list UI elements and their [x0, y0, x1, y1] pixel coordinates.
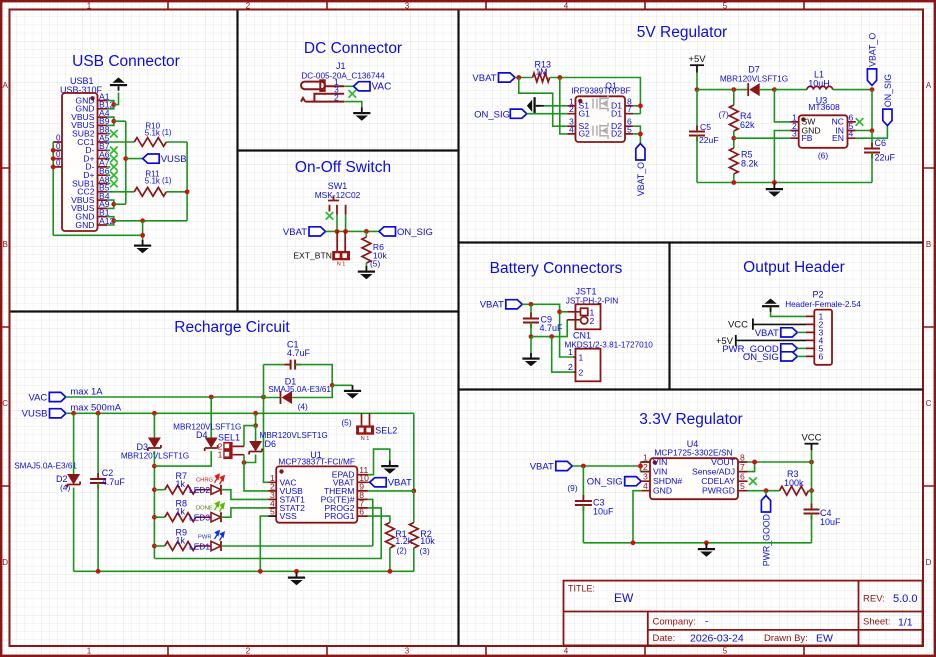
- wire R13 to Q1 drain tie: [550, 78, 641, 114]
- svg-text:3: 3: [405, 1, 410, 10]
- wire to CN1 pin2: [552, 337, 574, 373]
- svg-text:2: 2: [590, 316, 595, 326]
- wire to C4: [811, 491, 813, 508]
- junction VUSB tap: [123, 156, 128, 161]
- U4 pin1 marker dot: [653, 460, 657, 464]
- wire C6 to bottom rail: [871, 153, 873, 183]
- svg-text:4.7uF: 4.7uF: [540, 323, 564, 333]
- svg-text:(2): (2): [397, 546, 407, 556]
- connector P2 body: [814, 310, 832, 365]
- switch SW1 symbol: [328, 196, 346, 215]
- JST1 pin1 square symbol: [581, 308, 588, 315]
- svg-text:D6: D6: [265, 439, 277, 449]
- wire Q1 pin5: [633, 133, 640, 135]
- wire VOUT to VCC node: [748, 461, 812, 463]
- wire to VUSB flag: [126, 158, 143, 160]
- svg-text:1: 1: [568, 347, 573, 357]
- net flag VBAT (3.3V reg): [530, 461, 573, 472]
- ground 5V regulator: [766, 184, 783, 197]
- svg-text:4: 4: [643, 481, 648, 491]
- svg-text:1: 1: [643, 453, 648, 463]
- net flag VAC (DC in): [354, 82, 392, 93]
- section divider horizontal y=389.5 Battery/3.3V: [459, 388, 923, 390]
- wire gnd rail to JST1 pin2: [531, 320, 567, 337]
- wire C1 to gnd branch: [295, 365, 332, 386]
- wire R9 to LED1: [196, 545, 211, 547]
- net flag VBAT (switch): [283, 227, 326, 238]
- junction gnd bottom: [294, 569, 299, 574]
- junction R8 left: [152, 515, 157, 520]
- svg-text:6: 6: [359, 507, 364, 517]
- wire R13 to G2: [560, 78, 568, 134]
- connector SEL2 body: [356, 425, 374, 434]
- svg-text:(9): (9): [567, 483, 577, 493]
- frame ticks right: [923, 168, 935, 486]
- wire to D2: [73, 413, 75, 474]
- wire VUSB row: [66, 412, 414, 414]
- svg-text:+5V: +5V: [688, 54, 706, 65]
- wire to C1: [264, 364, 291, 366]
- junction shield pin: [51, 148, 56, 153]
- section divider vertical x=669.5 Battery/Output: [668, 243, 670, 390]
- U1 left pin stubs: [268, 482, 276, 508]
- capacitor C5: [689, 132, 705, 136]
- svg-text:LED2: LED2: [189, 485, 210, 495]
- junction VOUT/Sense: [752, 460, 757, 465]
- svg-text:C5: C5: [700, 122, 711, 132]
- svg-text:2: 2: [569, 104, 574, 114]
- junction SW1 pin2: [335, 229, 340, 234]
- wire J1 pin1 to VAC: [344, 85, 353, 87]
- wire R10 to right rail: [166, 141, 187, 143]
- svg-text:Date:: Date:: [653, 633, 676, 644]
- junction shield pin: [51, 165, 56, 170]
- diode D6 MBR120VLSFT1G: [249, 441, 262, 455]
- wire THERM to R2: [413, 491, 415, 523]
- wire recharge bottom rail: [74, 570, 414, 572]
- svg-text:Company:: Company:: [653, 617, 696, 628]
- svg-text:VBAT_O: VBAT_O: [636, 162, 646, 196]
- wire PWRGD to R3: [748, 490, 780, 492]
- svg-text:VBAT: VBAT: [480, 300, 504, 311]
- wire C5 to bottom rail: [696, 136, 698, 183]
- resistor R11: [134, 187, 166, 196]
- wire +5V to D7: [697, 89, 748, 91]
- svg-text:3: 3: [405, 647, 410, 656]
- resistor R6: [362, 237, 371, 263]
- svg-text:5: 5: [270, 507, 275, 517]
- wire CC2 to R11: [107, 191, 134, 193]
- junction 3.3V ground: [704, 540, 709, 545]
- svg-text:VAC: VAC: [372, 82, 392, 93]
- resistor R9: [165, 542, 196, 551]
- junction VBAT_O node: [870, 87, 875, 92]
- svg-text:G2: G2: [579, 129, 591, 139]
- JST1 pin2 circle symbol: [581, 317, 588, 324]
- svg-text:max 1A: max 1A: [70, 387, 103, 398]
- wire THERM: [368, 490, 414, 492]
- power port +5V (output): [716, 335, 736, 347]
- wire J1 pin2 to ground: [344, 102, 362, 108]
- Q1 pin names: [579, 101, 623, 139]
- diode D3 MBR120VLSFT1G: [148, 438, 161, 452]
- junction R11/right rail: [185, 189, 190, 194]
- junction R13 right: [557, 75, 562, 80]
- U3 pin stubs: [790, 122, 855, 138]
- svg-text:4: 4: [564, 647, 569, 656]
- diode D2 SMAJ5.0A-E3/61: [67, 474, 80, 488]
- junction C3 top: [581, 464, 586, 469]
- wire to PWR_GOOD flag: [765, 491, 767, 496]
- svg-text:D: D: [2, 558, 8, 567]
- svg-text:100k: 100k: [784, 478, 804, 488]
- wire R1 to bottom rail: [389, 548, 391, 571]
- svg-text:CDELAY: CDELAY: [701, 476, 735, 486]
- capacitor C1: [291, 360, 296, 370]
- diode D7 MBR120VLSFT1G: [748, 83, 760, 96]
- U1 pin1 marker dot: [279, 469, 283, 473]
- wire VAC row: [66, 396, 264, 398]
- capacitor C2: [90, 479, 106, 483]
- inductor L1: [807, 86, 833, 89]
- wire to battery ground: [530, 337, 532, 356]
- wire SEL1 pin1 to VBUS: [244, 455, 268, 491]
- power port VCC (output): [728, 319, 753, 331]
- wire VUSB to D6 node: [255, 413, 257, 425]
- junction R5 bottom: [731, 180, 736, 185]
- svg-text:2: 2: [246, 647, 251, 656]
- svg-text:2: 2: [579, 368, 584, 378]
- resistor R13: [533, 73, 550, 82]
- wire to C2: [97, 413, 99, 477]
- svg-text:10uF: 10uF: [820, 517, 841, 527]
- svg-text:22uF: 22uF: [699, 135, 719, 145]
- section divider horizontal y=311.5 USB/Recharge: [11, 310, 459, 312]
- wire to L1: [774, 89, 807, 91]
- wire R9 lead: [154, 545, 164, 547]
- ground recharge: [288, 572, 305, 585]
- Q1 pin1 marker dot: [578, 99, 582, 103]
- svg-text:0: 0: [56, 158, 61, 167]
- svg-text:VAC: VAC: [28, 392, 47, 403]
- ground USB top: [110, 77, 127, 90]
- svg-text:EN: EN: [832, 133, 844, 143]
- svg-text:1k: 1k: [176, 479, 186, 489]
- wire R4 to R5: [733, 131, 735, 148]
- wire C4 to bottom rail: [811, 514, 813, 543]
- svg-text:3: 3: [792, 129, 797, 139]
- power port VCC (3.3V): [801, 433, 821, 451]
- svg-text:3.3V Regulator: 3.3V Regulator: [639, 411, 742, 428]
- svg-text:2026-03-24: 2026-03-24: [690, 633, 744, 645]
- wire D1 to gnd branch: [292, 385, 332, 397]
- junction gnd bottom: [772, 180, 777, 185]
- svg-text:C: C: [2, 399, 8, 408]
- svg-text:1: 1: [87, 647, 92, 656]
- junction VSS bottom: [258, 569, 263, 574]
- U4 pin names: [653, 457, 736, 496]
- junction +5V node: [695, 87, 700, 92]
- svg-text:ON_SIG: ON_SIG: [743, 352, 779, 363]
- svg-text:MT3608: MT3608: [808, 102, 840, 112]
- wire C9 to gnd rail: [530, 323, 532, 337]
- junction D6 branch: [253, 411, 258, 416]
- svg-text:DONE: DONE: [196, 505, 213, 511]
- wire R7 to LED2: [196, 489, 211, 491]
- junction VCC node: [809, 460, 814, 465]
- svg-text:EW: EW: [816, 633, 833, 645]
- junction bottom gnd: [140, 233, 145, 238]
- svg-text:EXT_BTN: EXT_BTN: [293, 251, 332, 261]
- ground USB bottom: [134, 240, 151, 253]
- net flag VUSB (recharge): [22, 409, 66, 420]
- wire PG down: [368, 499, 373, 546]
- wire pin10 to VBAT flag: [368, 481, 370, 483]
- svg-text:5.1k: 5.1k: [145, 128, 161, 137]
- net flag ON_SIG (boost EN): [883, 74, 893, 126]
- svg-text:4: 4: [564, 1, 569, 10]
- junction PWR_GOOD tap: [764, 488, 769, 493]
- junction D3/D4 bottoms: [152, 464, 157, 469]
- svg-text:USB Connector: USB Connector: [72, 53, 180, 70]
- svg-text:2: 2: [334, 93, 339, 103]
- no-connect X SW1 pin: [326, 212, 334, 220]
- wire D2 to bottom rail: [73, 488, 75, 572]
- svg-text:5: 5: [723, 1, 728, 10]
- wire Q1 pin7: [633, 113, 640, 115]
- svg-text:5.0.0: 5.0.0: [893, 593, 917, 605]
- U3 pin1 marker dot: [801, 117, 805, 121]
- wire PWR_GOOD flag to pin5: [797, 347, 806, 349]
- junction R3 right: [809, 488, 814, 493]
- wire IN to node: [856, 130, 872, 132]
- wire VBAT_O node down to IN: [871, 90, 873, 131]
- wire PROG1 to R1: [368, 516, 390, 522]
- svg-text:REV:: REV:: [863, 594, 885, 605]
- ground Q1 S1: [527, 97, 540, 114]
- svg-text:Output Header: Output Header: [743, 259, 845, 276]
- resistor R3: [780, 486, 809, 495]
- diode D1 SMAJ5.0A-E3/61: [281, 391, 293, 404]
- junction B4/A9 mid: [111, 202, 116, 207]
- svg-text:CHRG: CHRG: [196, 478, 214, 484]
- junction U4 GND bottom: [631, 540, 636, 545]
- U4 pin stubs: [641, 462, 747, 491]
- junction D6 top: [253, 423, 258, 428]
- svg-text:8: 8: [740, 453, 745, 463]
- junction R1 bottom: [388, 569, 393, 574]
- no-connect X pin B8: [110, 130, 118, 138]
- wire 5V bottom rail: [697, 182, 872, 184]
- svg-text:(7): (7): [719, 110, 729, 120]
- wire Q1 pin6 to VBAT_O: [633, 126, 640, 143]
- USB1 right pin stubs: [98, 101, 108, 226]
- USB1 pin numbers: [99, 91, 115, 226]
- no-connect X pin A8: [110, 180, 118, 188]
- ground EPAD: [381, 461, 398, 474]
- wire D7 to L1: [760, 89, 775, 91]
- svg-text:PWR_GOOD: PWR_GOOD: [761, 514, 771, 566]
- wire to D1 ground: [332, 384, 352, 386]
- wire VBAT to R13: [515, 77, 533, 79]
- wire VAC to D1: [264, 397, 281, 399]
- svg-text:SMAJ5.0A-E3/61: SMAJ5.0A-E3/61: [14, 462, 77, 471]
- svg-text:VIN: VIN: [653, 457, 667, 467]
- svg-text:5: 5: [627, 124, 632, 134]
- svg-text:A: A: [3, 81, 9, 90]
- wire Sense to VOUT: [748, 462, 755, 472]
- P2 pin stubs: [806, 316, 814, 356]
- junction JST1 branch: [557, 309, 562, 314]
- svg-text:1: 1: [218, 450, 223, 460]
- wire shield rail: [52, 142, 54, 235]
- section divider horizontal y=150 DC/Switch: [238, 149, 459, 151]
- wire to C9: [530, 304, 532, 316]
- no-connect X pin A7: [110, 163, 118, 171]
- connector EXT_BTN pins: [337, 231, 345, 251]
- junction THERM node: [411, 489, 416, 494]
- connector SEL1 body: [223, 442, 232, 459]
- resistor R5: [729, 148, 738, 174]
- svg-text:B: B: [3, 240, 8, 249]
- svg-text:VCC: VCC: [801, 433, 821, 444]
- svg-text:7: 7: [627, 104, 632, 114]
- wire C2 to bottom rail: [97, 483, 99, 571]
- junction R4 tap: [731, 87, 736, 92]
- junction C2 bottom: [96, 569, 101, 574]
- wire U4 GND down: [633, 491, 641, 543]
- svg-text:B: B: [926, 240, 931, 249]
- svg-text:2: 2: [568, 362, 573, 372]
- svg-text:D7: D7: [748, 65, 760, 75]
- svg-text:VSS: VSS: [280, 511, 297, 521]
- no-connect X pin B7: [110, 147, 118, 155]
- svg-text:C: C: [926, 399, 932, 408]
- svg-text:VBAT: VBAT: [283, 227, 307, 238]
- connector USB1 body: [62, 93, 98, 231]
- svg-text:5: 5: [740, 481, 745, 491]
- LED LED2 red: [211, 474, 224, 494]
- junction B1/A12 mid: [111, 218, 116, 223]
- section divider horizontal y=242.5 5V/Battery: [459, 241, 923, 243]
- svg-text:MCP73837T-FCI/MF: MCP73837T-FCI/MF: [278, 457, 355, 467]
- ground 3.3V regulator: [698, 544, 715, 557]
- section divider vertical x=458.5: [457, 11, 459, 646]
- svg-text:2: 2: [643, 462, 648, 472]
- JST1 pin stubs: [567, 312, 580, 320]
- net flag VBAT (charger out): [370, 478, 412, 489]
- USB1 pin1 marker dot: [90, 96, 94, 100]
- svg-text:VBAT: VBAT: [530, 461, 554, 472]
- net flag VBAT (output): [755, 328, 798, 339]
- svg-text:ON_SIG: ON_SIG: [397, 227, 433, 238]
- wire EN to ON_SIG: [856, 126, 888, 139]
- svg-text:ON_SIG: ON_SIG: [587, 477, 623, 488]
- wire ON_SIG flag to pin6: [797, 355, 806, 357]
- svg-text:SEL2: SEL2: [375, 425, 397, 435]
- no-connect X pin B6: [110, 171, 118, 179]
- svg-text:-: -: [705, 617, 708, 628]
- wire R8 to LED3: [196, 516, 211, 518]
- junction SW1 pin3: [343, 229, 348, 234]
- frame ticks top: [168, 1, 804, 10]
- net flag ON_SIG (Q1): [510, 109, 527, 118]
- wire SW1 pin3 down: [345, 215, 347, 232]
- wire B1-A12 tie: [107, 217, 114, 225]
- title block outline: [564, 581, 923, 646]
- wire VCC node to R3/C4: [811, 462, 813, 491]
- svg-text:C6: C6: [875, 138, 887, 148]
- net flag VBAT_O (boost in): [867, 33, 877, 86]
- junction D3 top: [152, 411, 157, 416]
- wire +5V to P2 pin4: [736, 339, 806, 341]
- junction R7 left: [152, 487, 157, 492]
- connector JST1 body: [576, 304, 601, 329]
- svg-text:VCC: VCC: [728, 320, 748, 331]
- wire D6 top lead: [255, 426, 257, 441]
- svg-text:TITLE:: TITLE:: [568, 584, 595, 594]
- resistor R4: [729, 105, 738, 131]
- svg-text:MSK-12C02: MSK-12C02: [315, 190, 361, 200]
- net flag VAC (recharge): [28, 392, 65, 403]
- wire ground stub to S1: [536, 105, 544, 107]
- no-connect X U4 CDELAY: [749, 477, 757, 485]
- svg-text:10uF: 10uF: [593, 507, 614, 517]
- wire P2 pin1 to ground: [771, 308, 806, 317]
- junction C9 bottom: [529, 334, 534, 339]
- wire R7 lead: [154, 489, 164, 491]
- wire VBUS vertical rail: [125, 121, 127, 204]
- svg-text:6: 6: [819, 351, 824, 361]
- svg-text:Battery Connectors: Battery Connectors: [490, 260, 623, 277]
- svg-text:VIN: VIN: [653, 467, 667, 477]
- U1 right pin stubs: [357, 475, 368, 516]
- svg-text:22uF: 22uF: [875, 153, 896, 163]
- svg-text:(5): (5): [341, 417, 351, 427]
- wire SW to switch node: [774, 90, 790, 122]
- wire D6 bottom: [244, 455, 256, 463]
- svg-text:1k: 1k: [176, 535, 186, 545]
- capacitor C9: [523, 319, 539, 323]
- svg-text:4: 4: [849, 129, 854, 139]
- wire VAC down to U1: [264, 397, 269, 482]
- frame ticks bottom: [168, 647, 804, 656]
- wire LED2 to STAT1: [221, 490, 268, 500]
- ground DC connector: [353, 108, 370, 121]
- resistor R1: [386, 523, 395, 549]
- svg-text:DC-005-20A_C136744: DC-005-20A_C136744: [301, 72, 385, 81]
- svg-text:1: 1: [579, 352, 584, 362]
- wire VCC down: [811, 450, 813, 462]
- wire R2 to bottom rail: [413, 548, 415, 571]
- wire VBAT to S2: [519, 78, 568, 127]
- wire A1-B12 tie: [107, 101, 114, 109]
- net flag VBAT_O (Q1 out): [636, 144, 646, 197]
- CN1 pin stubs: [574, 357, 576, 372]
- wire PROG2 loop: [154, 508, 381, 559]
- svg-text:1/1: 1/1: [898, 617, 913, 629]
- svg-text:SHDN#: SHDN#: [653, 476, 682, 486]
- svg-text:D1: D1: [611, 109, 622, 119]
- net flag PWR_GOOD (3.3V): [761, 496, 771, 567]
- connector J1 barrel jack symbol: [301, 80, 344, 101]
- svg-text:LED1: LED1: [189, 541, 210, 551]
- junction R9 left: [152, 544, 157, 549]
- svg-text:IRF9389TRPBF: IRF9389TRPBF: [571, 86, 631, 96]
- wire VCC to P2 pin2: [753, 323, 806, 325]
- svg-text:D4: D4: [196, 430, 208, 440]
- svg-text:PWR: PWR: [198, 534, 212, 540]
